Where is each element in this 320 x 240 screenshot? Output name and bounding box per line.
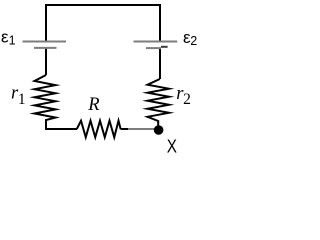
svg-text:2: 2 — [183, 91, 191, 108]
svg-text:2: 2 — [190, 34, 197, 48]
svg-text:R: R — [87, 95, 99, 115]
svg-text:1: 1 — [18, 91, 26, 108]
svg-text:X: X — [167, 136, 177, 155]
svg-text:1: 1 — [9, 34, 16, 48]
